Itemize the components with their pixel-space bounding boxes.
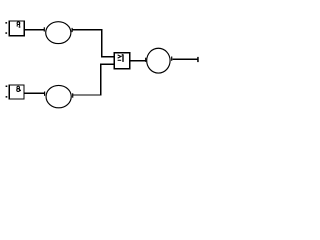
dot after label in B2 — [19, 90, 21, 91]
port tick at A1 output — [72, 28, 73, 32]
wire A3 to output terminal — [172, 58, 197, 60]
pin dot B2 upper-left — [6, 86, 8, 88]
circle element A1 — [46, 22, 71, 44]
wire A2 to OR gate input 2 — [73, 64, 114, 96]
circle element A2 — [46, 85, 71, 107]
source block B1 — [9, 21, 24, 36]
source block B2 — [9, 85, 24, 99]
pin dot B1 upper-left — [5, 22, 7, 24]
port tick at A3 input — [145, 58, 146, 62]
wire B2 to A2 — [25, 92, 44, 94]
OR gate label digit 1 — [122, 54, 123, 62]
output terminal T1 — [197, 57, 199, 62]
circle element A3 — [147, 48, 170, 73]
wire B1 to A1 — [25, 29, 44, 31]
port tick at A3 output — [171, 57, 172, 61]
pin dot B1 lower-left — [5, 32, 7, 34]
port tick at A2 output — [72, 93, 73, 97]
value label 8. in B2 — [17, 86, 20, 91]
wire OR gate to A3 — [130, 60, 145, 62]
OR gate U1 (IEC symbol) — [114, 53, 130, 69]
wire A1 to OR gate input 1 — [73, 29, 115, 57]
port tick at A1 input — [44, 27, 45, 31]
pin dot B2 lower-left — [6, 96, 8, 98]
dot after label in B1 — [19, 26, 21, 28]
OR gate label greater-equal part — [118, 55, 122, 60]
value label g. in B1 — [17, 22, 20, 27]
port tick at A2 input — [44, 92, 45, 96]
